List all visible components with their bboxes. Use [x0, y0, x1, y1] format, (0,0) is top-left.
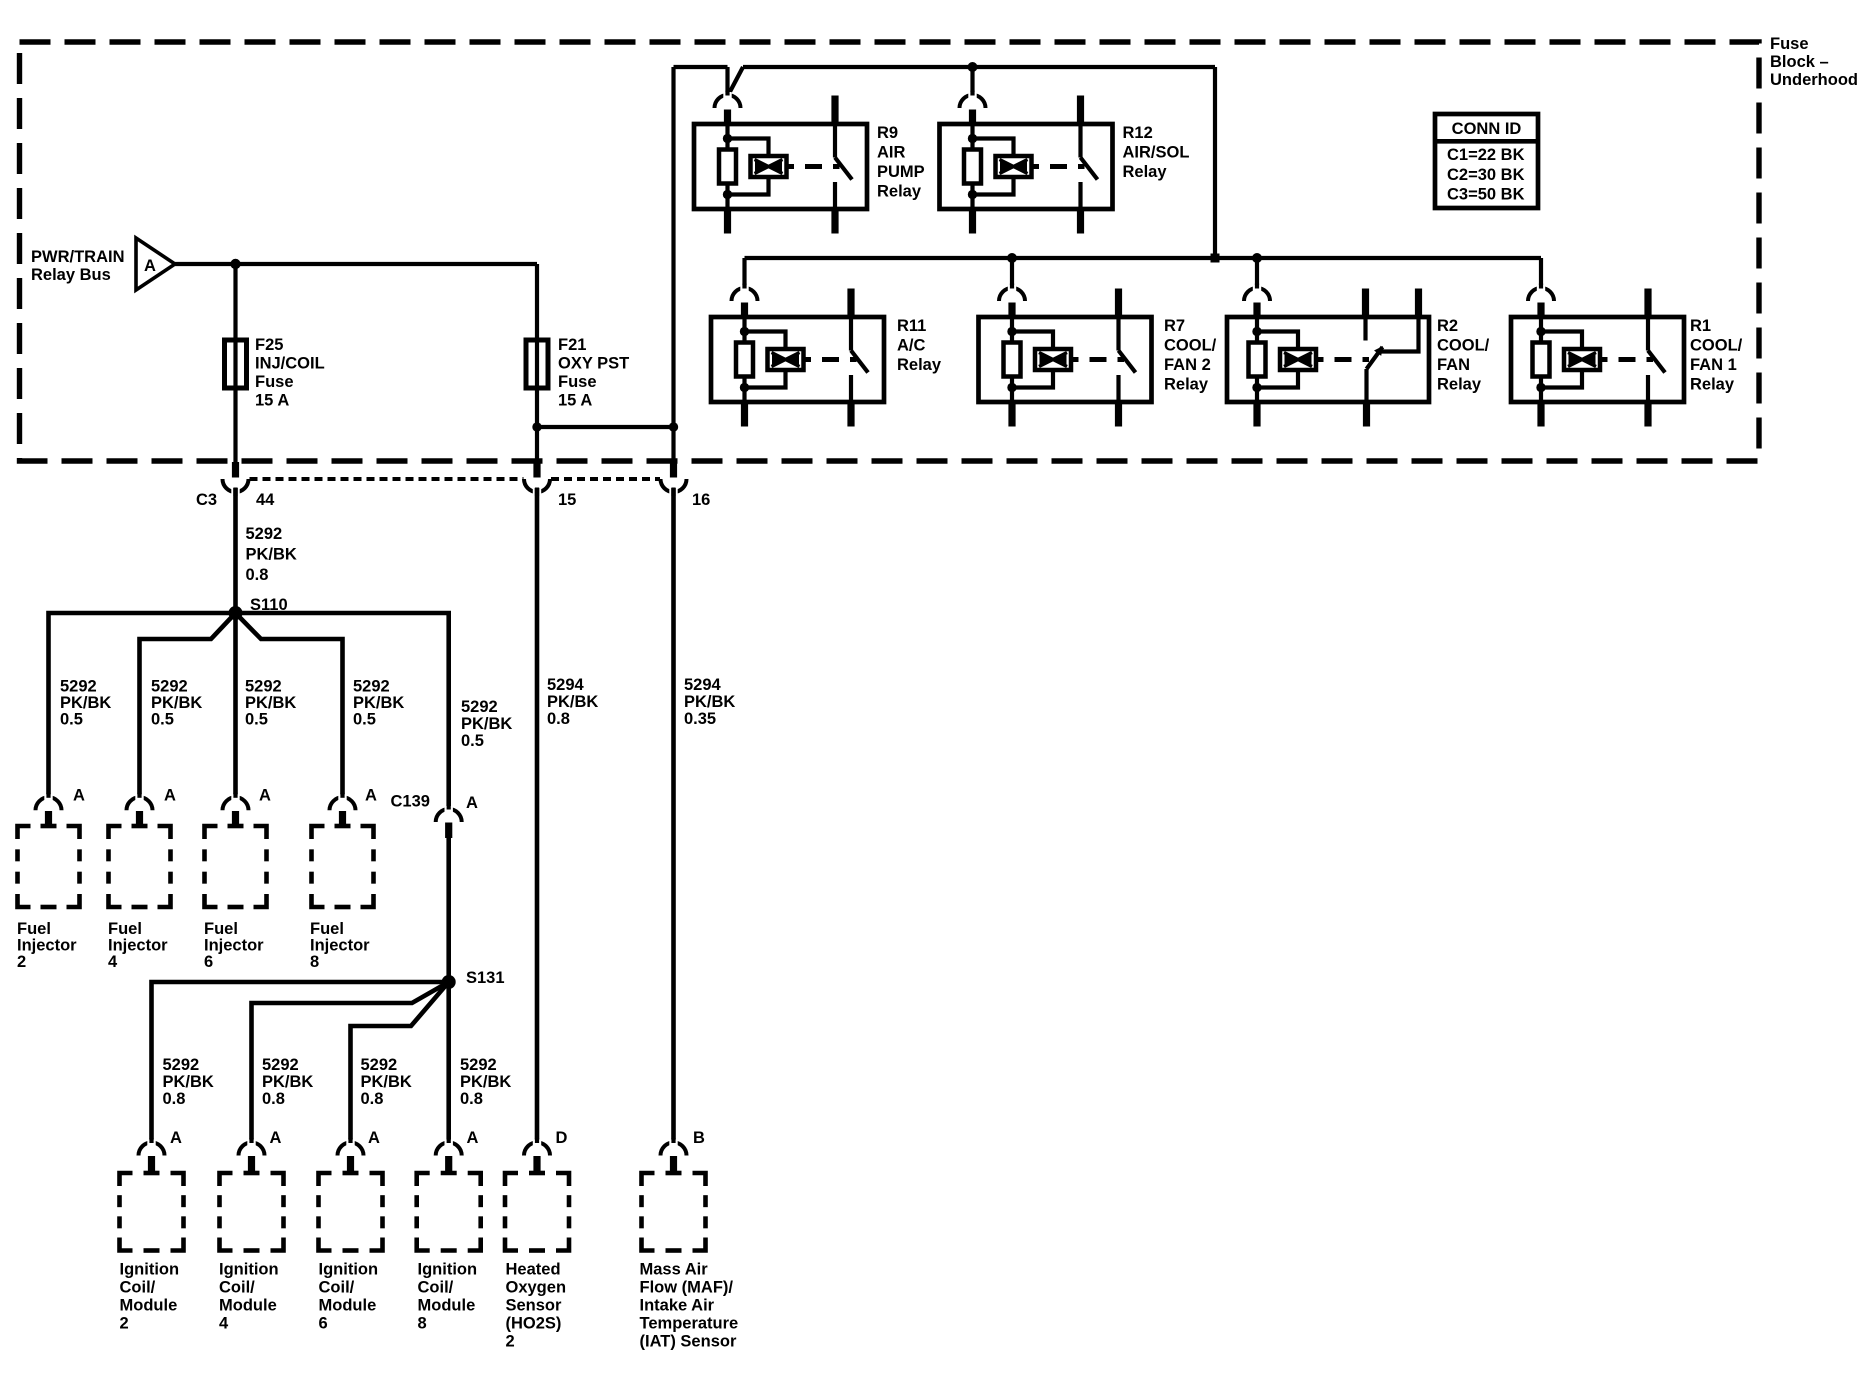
svg-text:PK/BK: PK/BK — [262, 1073, 313, 1091]
svg-text:A: A — [144, 257, 156, 275]
svg-text:A/C: A/C — [897, 337, 926, 355]
relay R2 COOL/FAN — [1227, 289, 1490, 427]
wire: bus drop to fuse F25 — [233, 264, 237, 340]
svg-text:OXY PST: OXY PST — [558, 355, 629, 373]
svg-text:PK/BK: PK/BK — [60, 694, 111, 712]
svg-text:Fuel: Fuel — [108, 920, 142, 938]
node connector pin 15 — [524, 479, 576, 509]
wire: S110 branch to fuel injector 2 — [49, 613, 236, 802]
connector: R9 coil terminal — [715, 91, 741, 125]
svg-text:5292: 5292 — [245, 678, 282, 696]
svg-text:PK/BK: PK/BK — [547, 693, 598, 711]
svg-text:15 A: 15 A — [558, 392, 592, 410]
svg-text:PK/BK: PK/BK — [461, 715, 512, 733]
svg-text:16: 16 — [692, 491, 710, 509]
connector row C3 dotted line — [250, 477, 661, 481]
fuse F21 OXY PST 15 A — [526, 336, 629, 410]
svg-text:Relay: Relay — [1437, 376, 1482, 394]
connector: R1 coil terminal — [1528, 284, 1554, 318]
svg-text:0.8: 0.8 — [262, 1090, 285, 1108]
svg-text:Module: Module — [219, 1297, 277, 1315]
svg-text:Module: Module — [418, 1297, 476, 1315]
wire: pin 16 column down to connector — [671, 427, 675, 478]
connector A ignition coil 2 — [139, 1129, 183, 1173]
wire: F21 down to connector pin 15 — [535, 388, 539, 478]
svg-text:0.8: 0.8 — [460, 1090, 483, 1108]
node connector pin 16 — [661, 479, 711, 509]
svg-text:Fuel: Fuel — [204, 920, 238, 938]
svg-text:C2=30 BK: C2=30 BK — [1447, 166, 1525, 184]
svg-text:D: D — [556, 1129, 568, 1147]
wire: rail drop to R7 coil — [1010, 258, 1014, 292]
wire: S131 branch to ignition coil 4 — [252, 982, 449, 1148]
splice S110 — [229, 596, 288, 620]
fuel injector 4 — [108, 826, 171, 971]
svg-text:Relay: Relay — [1123, 163, 1168, 181]
svg-text:(HO2S): (HO2S) — [506, 1315, 562, 1333]
svg-text:A: A — [270, 1129, 282, 1147]
svg-text:0.5: 0.5 — [151, 711, 174, 729]
svg-text:Ignition: Ignition — [319, 1261, 379, 1279]
ignition coil/module 8 — [417, 1173, 481, 1333]
svg-text:PK/BK: PK/BK — [361, 1073, 412, 1091]
svg-text:CONN ID: CONN ID — [1452, 120, 1522, 138]
svg-text:44: 44 — [256, 491, 275, 509]
svg-text:5294: 5294 — [684, 676, 722, 694]
svg-text:Injector: Injector — [204, 937, 264, 955]
wire: S110 branch to fuel injector 4 — [140, 613, 236, 802]
connector A fuel injector 6 — [223, 787, 272, 827]
connector: R12 coil terminal — [960, 91, 986, 125]
svg-text:2: 2 — [17, 953, 26, 971]
svg-text:FAN: FAN — [1437, 356, 1470, 374]
svg-text:C1=22 BK: C1=22 BK — [1447, 146, 1525, 164]
svg-text:15 A: 15 A — [255, 392, 289, 410]
svg-text:Coil/: Coil/ — [418, 1279, 454, 1297]
svg-text:5292: 5292 — [460, 1056, 497, 1074]
fuel injector 6 — [204, 826, 267, 971]
svg-text:5292: 5292 — [361, 1056, 398, 1074]
label wire 5292 PK/BK 0.8 (coil 8) — [460, 1056, 511, 1108]
svg-text:Fuel: Fuel — [310, 920, 344, 938]
relay R12 AIR/SOL — [940, 96, 1190, 234]
CONN ID table — [1435, 114, 1538, 208]
wire 5292 PK/BK 0.8 from pin 44 to S110 — [236, 488, 297, 613]
svg-text:R2: R2 — [1437, 317, 1458, 335]
svg-text:Coil/: Coil/ — [219, 1279, 255, 1297]
svg-text:Sensor: Sensor — [506, 1297, 563, 1315]
svg-text:Mass Air: Mass Air — [640, 1261, 709, 1279]
wire: top relay feed rail — [674, 62, 1216, 258]
svg-text:15: 15 — [558, 491, 576, 509]
svg-text:R1: R1 — [1690, 317, 1711, 335]
svg-text:5294: 5294 — [547, 676, 585, 694]
svg-text:Injector: Injector — [310, 937, 370, 955]
svg-text:A: A — [365, 787, 377, 805]
svg-text:PK/BK: PK/BK — [353, 694, 404, 712]
label wire 5292 PK/BK 0.5 (injector 2) — [60, 678, 111, 729]
svg-text:R7: R7 — [1164, 317, 1185, 335]
relay R1 COOL/FAN 1 — [1511, 289, 1743, 427]
svg-text:0.5: 0.5 — [353, 711, 376, 729]
wire: rail drop to R2 coil — [1255, 258, 1259, 292]
svg-text:0.5: 0.5 — [60, 711, 83, 729]
connector A fuel injector 4 — [127, 787, 177, 827]
relay R7 COOL/FAN 2 — [979, 289, 1217, 427]
svg-text:F21: F21 — [558, 336, 586, 354]
svg-text:Block –: Block – — [1770, 53, 1829, 71]
ignition coil/module 6 — [319, 1173, 383, 1333]
svg-text:Oxygen: Oxygen — [506, 1279, 567, 1297]
splice S131 — [442, 969, 505, 989]
wire 5294 PK/BK 0.8 (HO2S run) — [537, 488, 598, 1148]
svg-text:PWR/TRAIN: PWR/TRAIN — [31, 248, 125, 266]
svg-text:C3: C3 — [196, 491, 217, 509]
svg-text:5292: 5292 — [163, 1056, 200, 1074]
connector D HO2S — [524, 1129, 568, 1173]
wire: S131 branch to ignition coil 6 — [351, 982, 449, 1148]
svg-text:8: 8 — [418, 1315, 427, 1333]
svg-text:PK/BK: PK/BK — [245, 694, 296, 712]
wire: rail drop to R11 coil — [742, 258, 746, 292]
wire: bus drop to fuse F21 — [535, 264, 539, 340]
fuse block underhood dashed box — [20, 42, 1760, 461]
svg-text:R11: R11 — [897, 317, 926, 335]
svg-text:5292: 5292 — [151, 678, 188, 696]
node A PWR/TRAIN Relay Bus — [31, 238, 175, 290]
svg-text:Heated: Heated — [506, 1261, 561, 1279]
wire: S110 branch to fuel injector 8 — [236, 613, 343, 802]
svg-text:PK/BK: PK/BK — [684, 693, 735, 711]
connector: R2 coil terminal — [1244, 284, 1270, 318]
svg-text:R12: R12 — [1123, 124, 1153, 142]
svg-text:A: A — [466, 794, 478, 812]
svg-text:2: 2 — [506, 1333, 515, 1351]
svg-text:0.5: 0.5 — [461, 732, 484, 750]
svg-text:PK/BK: PK/BK — [163, 1073, 214, 1091]
svg-text:Intake Air: Intake Air — [640, 1297, 715, 1315]
svg-text:0.8: 0.8 — [163, 1090, 186, 1108]
svg-text:A: A — [170, 1129, 182, 1147]
wire 5294 PK/BK 0.35 (MAF run) — [674, 488, 736, 1148]
svg-text:6: 6 — [319, 1315, 328, 1333]
svg-text:AIR: AIR — [877, 144, 906, 162]
wire: F25 to connector C3 pin 44 — [233, 388, 237, 478]
svg-text:C3=50 BK: C3=50 BK — [1447, 186, 1525, 204]
svg-text:Temperature: Temperature — [640, 1315, 739, 1333]
ignition coil/module 2 — [120, 1173, 184, 1333]
label wire 5292 PK/BK 0.8 (coil 6) — [361, 1056, 412, 1108]
connector: R11 coil terminal — [732, 284, 758, 318]
wire: rail drop to R1 coil — [1539, 258, 1543, 292]
svg-text:Coil/: Coil/ — [319, 1279, 355, 1297]
connector C139 pin A — [391, 793, 479, 839]
connector: R7 coil terminal — [999, 284, 1025, 318]
svg-text:Module: Module — [319, 1297, 377, 1315]
label wire 5292 PK/BK 0.8 (coil 2) — [163, 1056, 214, 1108]
label wire 5292 PK/BK 0.5 (injector 8) — [353, 678, 404, 729]
wire: S131 branch to ignition coil 8 — [446, 982, 451, 1148]
fuse block label — [1770, 35, 1858, 89]
node C3 connector pin 44 — [196, 479, 275, 509]
svg-text:Relay Bus: Relay Bus — [31, 266, 111, 284]
svg-text:Ignition: Ignition — [418, 1261, 478, 1279]
svg-text:2: 2 — [120, 1315, 129, 1333]
fuel injector 2 — [17, 826, 80, 971]
svg-text:5292: 5292 — [353, 678, 390, 696]
svg-text:COOL/: COOL/ — [1690, 337, 1743, 355]
wire: relay bus from node A to F21 column — [175, 259, 537, 269]
svg-text:A: A — [368, 1129, 380, 1147]
svg-text:0.8: 0.8 — [547, 710, 570, 728]
svg-text:C139: C139 — [391, 793, 430, 811]
heated oxygen sensor HO2S 2 — [505, 1173, 569, 1351]
svg-text:PK/BK: PK/BK — [151, 694, 202, 712]
mass air flow / intake air temperature sensor — [640, 1173, 739, 1351]
fuse F25 INJ/COIL 15 A — [225, 336, 325, 410]
svg-text:4: 4 — [219, 1315, 229, 1333]
ignition coil/module 4 — [219, 1173, 284, 1333]
fuel injector 8 — [310, 826, 374, 971]
connector A ignition coil 8 — [436, 1129, 479, 1173]
wire: F21 tie to pin 16 column — [532, 422, 678, 431]
connector A fuel injector 2 — [36, 787, 86, 827]
label wire 5292 PK/BK 0.8 (coil 4) — [262, 1056, 313, 1108]
wire: pin 16 column riser to top rail — [671, 67, 675, 427]
wire: C139 to splice S131 — [446, 838, 451, 982]
connector A fuel injector 8 — [330, 787, 378, 827]
svg-text:Fuse: Fuse — [255, 373, 294, 391]
svg-text:Relay: Relay — [877, 183, 922, 201]
svg-text:AIR/SOL: AIR/SOL — [1123, 144, 1190, 162]
svg-text:Flow (MAF)/: Flow (MAF)/ — [640, 1279, 734, 1297]
svg-text:R9: R9 — [877, 124, 898, 142]
svg-text:A: A — [259, 787, 271, 805]
svg-text:Module: Module — [120, 1297, 178, 1315]
svg-text:INJ/COIL: INJ/COIL — [255, 355, 325, 373]
wire: second relay feed rail — [745, 253, 1542, 263]
svg-text:5292: 5292 — [461, 698, 498, 716]
svg-text:0.5: 0.5 — [245, 711, 268, 729]
wire: rail drop to R12 coil — [970, 67, 974, 99]
relay R11 A/C — [711, 289, 942, 427]
svg-text:Underhood: Underhood — [1770, 71, 1858, 89]
relay R9 AIR PUMP — [694, 96, 925, 234]
svg-text:S131: S131 — [466, 969, 505, 987]
svg-text:5292: 5292 — [246, 525, 283, 543]
svg-text:A: A — [73, 787, 85, 805]
label wire 5292 PK/BK 0.5 (C139) — [461, 698, 512, 750]
svg-text:4: 4 — [108, 953, 118, 971]
svg-text:0.35: 0.35 — [684, 710, 716, 728]
svg-text:0.8: 0.8 — [361, 1090, 384, 1108]
wire: S110 branch to fuel injector 6 — [233, 613, 238, 802]
svg-text:FAN 1: FAN 1 — [1690, 356, 1737, 374]
svg-text:Ignition: Ignition — [120, 1261, 180, 1279]
svg-text:Fuse: Fuse — [1770, 35, 1809, 53]
svg-text:5292: 5292 — [60, 678, 97, 696]
svg-text:6: 6 — [204, 953, 213, 971]
label wire 5292 PK/BK 0.5 (injector 6) — [245, 678, 296, 729]
svg-text:Injector: Injector — [17, 937, 77, 955]
svg-text:8: 8 — [310, 953, 319, 971]
svg-text:PUMP: PUMP — [877, 163, 925, 181]
svg-text:F25: F25 — [255, 336, 283, 354]
svg-text:PK/BK: PK/BK — [246, 546, 297, 564]
svg-text:A: A — [164, 787, 176, 805]
svg-text:COOL/: COOL/ — [1437, 337, 1490, 355]
label wire 5292 PK/BK 0.5 (injector 4) — [151, 678, 202, 729]
connector A ignition coil 4 — [239, 1129, 282, 1173]
svg-text:Fuel: Fuel — [17, 920, 51, 938]
connector B MAF — [661, 1129, 706, 1173]
wire: S110 branch to C139 — [236, 613, 449, 814]
svg-text:COOL/: COOL/ — [1164, 337, 1217, 355]
svg-text:Ignition: Ignition — [219, 1261, 279, 1279]
svg-text:(IAT) Sensor: (IAT) Sensor — [640, 1333, 737, 1351]
svg-text:Coil/: Coil/ — [120, 1279, 156, 1297]
svg-text:Fuse: Fuse — [558, 373, 597, 391]
connector A ignition coil 6 — [338, 1129, 381, 1173]
svg-text:Relay: Relay — [1164, 376, 1209, 394]
svg-text:Injector: Injector — [108, 937, 168, 955]
svg-text:PK/BK: PK/BK — [460, 1073, 511, 1091]
svg-text:5292: 5292 — [262, 1056, 299, 1074]
wire: S131 branch to ignition coil 2 — [152, 982, 449, 1148]
svg-text:A: A — [467, 1129, 479, 1147]
svg-text:Relay: Relay — [897, 356, 942, 374]
svg-text:FAN 2: FAN 2 — [1164, 356, 1211, 374]
svg-text:0.8: 0.8 — [246, 566, 269, 584]
svg-text:B: B — [693, 1129, 705, 1147]
svg-text:Relay: Relay — [1690, 376, 1735, 394]
